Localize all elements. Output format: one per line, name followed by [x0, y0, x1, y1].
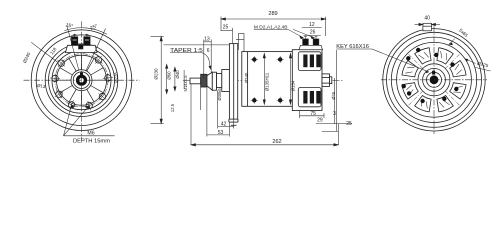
svg-text:Ø230: Ø230	[154, 68, 159, 80]
svg-text:75: 75	[310, 111, 316, 117]
main body	[242, 52, 293, 107]
dim 289	[221, 17, 326, 36]
brush access boxes	[298, 52, 321, 107]
right view keyway	[432, 71, 435, 75]
svg-text:Ø45: Ø45	[331, 91, 336, 100]
svg-text:40: 40	[424, 16, 430, 22]
shaft step cylinder	[217, 74, 222, 88]
svg-text:M14x1.5: M14x1.5	[183, 75, 188, 92]
body front eye bracket lines	[236, 33, 244, 51]
left view hub circles	[71, 70, 92, 91]
right view hub circles	[418, 64, 450, 96]
left view bolt circle dash-dot	[55, 54, 108, 107]
flange foot steps	[229, 121, 238, 123]
svg-text:Ø40: Ø40	[175, 70, 180, 79]
right view slot screws dark	[402, 48, 459, 103]
left view bearing ring circles	[52, 51, 111, 110]
dim dia154	[289, 54, 291, 105]
left view spokes	[57, 55, 107, 105]
mounting flange	[229, 44, 237, 120]
svg-text:DEPTH 15mm: DEPTH 15mm	[73, 138, 111, 144]
left view shaft (dark)	[76, 75, 87, 86]
dim dia135H11	[263, 54, 265, 105]
right view outer circles	[383, 29, 485, 131]
svg-text:Ø60: Ø60	[167, 71, 172, 80]
left view M6 bolt holes	[50, 56, 113, 110]
left view terminal studs	[71, 34, 90, 46]
right view top terminal	[423, 23, 432, 31]
svg-text:Ø228: Ø228	[114, 72, 119, 83]
svg-text:Ø135H11: Ø135H11	[264, 72, 269, 91]
svg-text:KEY 616X16: KEY 616X16	[336, 44, 369, 50]
right view radial dash lines	[408, 53, 461, 106]
right view: rear face	[383, 29, 485, 131]
shaft nut hatched	[201, 74, 207, 87]
rear bearing stub	[322, 74, 330, 87]
M6 leader lines	[64, 105, 115, 136]
svg-text:29: 29	[317, 118, 323, 124]
dim dia230 of left view	[151, 37, 164, 124]
right view shaft center dark	[430, 75, 439, 84]
svg-text:12.5: 12.5	[170, 103, 175, 112]
brush box slots dark bars	[303, 55, 320, 104]
right view ventilation slots (annular sectors)	[402, 48, 466, 112]
middle terminal studs	[303, 36, 319, 45]
left view: drive-end face	[31, 30, 132, 131]
svg-text:25: 25	[346, 121, 352, 127]
centerline	[183, 79, 344, 81]
svg-text:TAPER 1:5: TAPER 1:5	[170, 48, 203, 54]
left view housing circles	[31, 30, 132, 131]
svg-text:289: 289	[268, 11, 277, 17]
svg-text:13: 13	[204, 36, 210, 42]
svg-text:Ø154: Ø154	[291, 80, 296, 91]
svg-text:M6: M6	[87, 130, 94, 136]
rear extension lines	[334, 50, 336, 131]
radial dim line 143 deg	[31, 42, 57, 62]
rear housing	[292, 50, 322, 111]
shaft threaded tip	[190, 78, 201, 84]
left view keyway	[80, 72, 83, 75]
right view centerlines	[381, 26, 487, 134]
left view face circles	[45, 44, 118, 117]
shaft taper	[207, 72, 212, 90]
left view centerlines	[24, 21, 140, 140]
flange top extension line	[164, 44, 230, 46]
svg-text:6: 6	[207, 48, 210, 54]
dim dia60	[166, 64, 168, 93]
svg-text:262: 262	[272, 139, 281, 145]
svg-text:M D2,A1,A2,4B: M D2,A1,A2,4B	[254, 25, 288, 30]
middle terminal block	[299, 45, 323, 49]
svg-text:25: 25	[223, 24, 229, 30]
svg-text:Ø240: Ø240	[244, 72, 249, 83]
body bolt dots	[251, 56, 284, 104]
bearing boss	[222, 70, 230, 92]
right view slot hatch marks	[405, 51, 462, 108]
left view terminal block	[66, 45, 98, 53]
washer	[212, 72, 216, 90]
svg-text:26: 26	[310, 30, 316, 36]
dim dia40	[174, 67, 176, 91]
dim 262	[191, 84, 338, 146]
dim M14 line	[183, 70, 185, 89]
left view angle dim lines 15/25 deg	[64, 25, 107, 71]
